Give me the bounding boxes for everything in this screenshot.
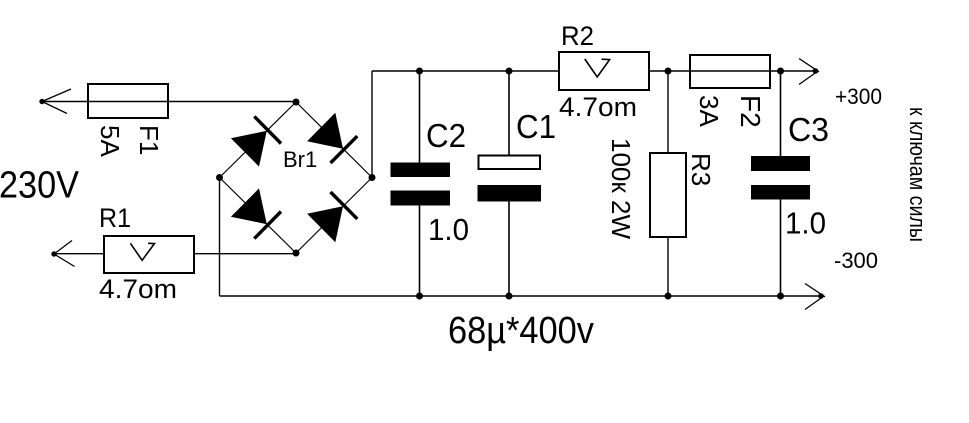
svg-text:4.7om: 4.7om	[559, 92, 637, 122]
node bridge top	[293, 99, 300, 106]
svg-text:к ключам силы: к ключам силы	[905, 107, 930, 242]
resistor R2	[559, 52, 649, 90]
node C1 bottom	[506, 293, 513, 300]
svg-text:C3: C3	[788, 111, 829, 148]
fuse F1	[88, 84, 168, 118]
node C2 top	[416, 68, 423, 75]
svg-text:Br1: Br1	[283, 147, 317, 172]
diode top-left	[231, 131, 267, 167]
resistor R1	[104, 236, 194, 273]
node bridge bottom	[293, 250, 300, 257]
svg-text:1.0: 1.0	[428, 212, 469, 247]
svg-text:+300: +300	[835, 84, 882, 109]
bridge Br1 diamond wires	[220, 102, 373, 253]
svg-text:F1: F1	[134, 125, 164, 155]
svg-text:C2: C2	[426, 117, 466, 154]
node bridge left	[216, 174, 223, 181]
arrow bottom-right output	[805, 284, 825, 310]
svg-text:3A: 3A	[694, 95, 724, 127]
svg-text:4.7om: 4.7om	[99, 274, 177, 304]
node C2 bottom	[416, 293, 423, 300]
node bridge right	[369, 174, 376, 181]
resistor R3	[667, 71, 669, 153]
svg-text:230V: 230V	[0, 165, 80, 207]
svg-text:100к 2W: 100к 2W	[606, 138, 636, 239]
wire top AC line from input arrow to bridge top	[42, 101, 296, 103]
wire top rail	[372, 70, 818, 72]
svg-text:R2: R2	[561, 21, 594, 51]
arrow top-right output	[799, 59, 819, 85]
wire bridge left vertex down to bottom rail	[219, 178, 221, 297]
diode bottom-right	[307, 206, 343, 242]
diode bottom-left	[231, 188, 267, 224]
node after R2	[665, 68, 672, 75]
capacitor C1	[508, 71, 510, 155]
input arrow top (open arrowhead with dot)	[42, 89, 71, 114]
svg-text:1.0: 1.0	[785, 206, 826, 241]
node C1 top	[506, 68, 513, 75]
wire bottom rail	[220, 295, 823, 297]
wire bottom AC line from input arrow through R1 to bridge bottom	[54, 253, 296, 255]
svg-text:68µ*400v: 68µ*400v	[448, 310, 594, 352]
fuse F2	[690, 55, 770, 88]
svg-text:C1: C1	[516, 108, 556, 145]
svg-text:-300: -300	[834, 248, 878, 273]
svg-text:5A: 5A	[95, 125, 125, 157]
node C3 top	[777, 68, 784, 75]
svg-text:R3: R3	[686, 153, 716, 186]
node C3 bottom	[777, 293, 784, 300]
node R3 bottom	[665, 293, 672, 300]
svg-text:F2: F2	[735, 95, 766, 128]
wire bridge right vertex up to top rail	[371, 71, 373, 178]
svg-text:R1: R1	[99, 203, 131, 233]
capacitor C3	[780, 71, 782, 156]
diode top-right	[307, 113, 343, 149]
input arrow bottom	[54, 241, 75, 267]
capacitor C2	[419, 71, 421, 163]
